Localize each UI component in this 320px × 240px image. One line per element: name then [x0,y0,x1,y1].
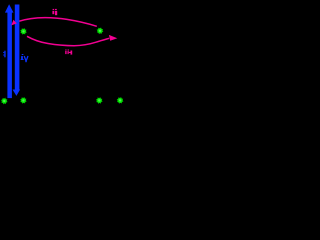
node D (bottom row dot 2) [20,97,27,104]
label B1 (magenta 'ii' above upper arc) [52,9,57,15]
wire W2 arrowhead down [13,90,21,96]
node B (field point right-top) [97,27,104,34]
wire W1 (left conductor, current up) [7,12,11,98]
field line lower arc [27,36,109,45]
node F (bottom row dot 4) [117,97,124,104]
wire W1 arrowhead up [5,4,14,12]
wire W2 (right conductor, current down) [15,5,20,90]
node E (bottom row dot 3) [96,97,103,104]
node A (field point left-top) [20,28,27,35]
label B2 (magenta 'iH' below lower arc) [65,50,72,55]
field line upper arc [19,18,97,27]
background [0,0,139,124]
label I1 (blue, left of wire W1) [3,51,5,58]
node C (bottom row dot 1) [1,98,8,105]
upper arc arrowhead (points lower-left between wires) [11,20,16,26]
label I2 (blue 'iv', right of wire W2) [21,54,28,62]
lower arc arrowhead (points right) [109,35,117,41]
